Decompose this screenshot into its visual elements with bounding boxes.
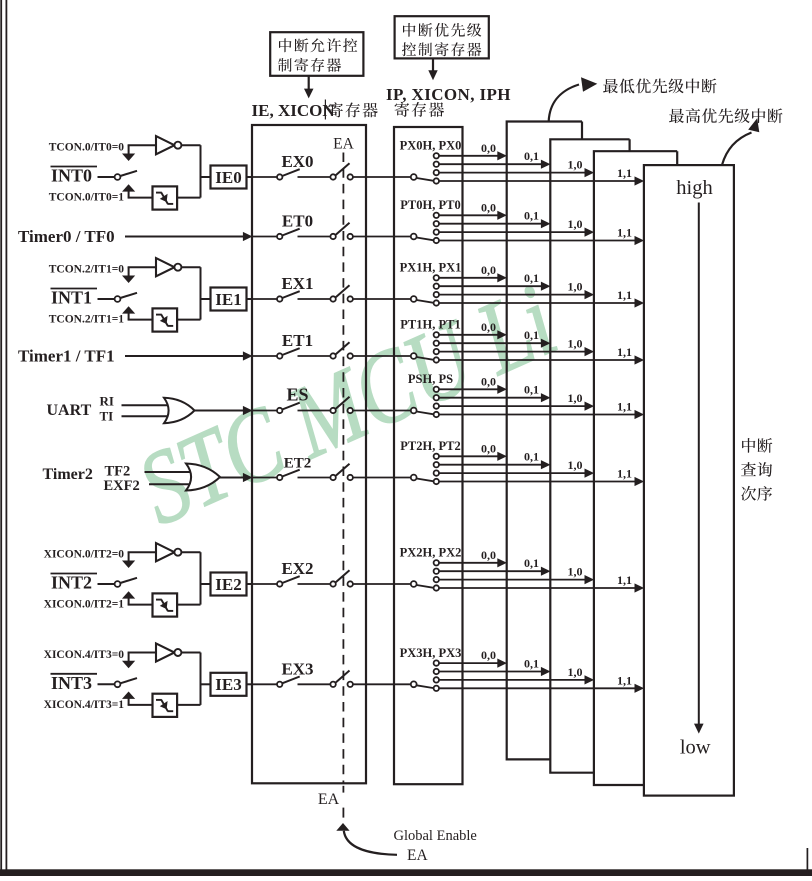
trigger select switch [115, 681, 121, 687]
svg-text:PT1H, PT1: PT1H, PT1 [400, 318, 460, 332]
wire priority 0,1 [439, 570, 542, 572]
svg-text:0,1: 0,1 [524, 271, 539, 285]
priority selector switch (PX3H, PX3) [411, 681, 417, 687]
priority selector switch (PT1H, PT1) [411, 353, 417, 359]
svg-text:EX2: EX2 [281, 559, 313, 578]
page bottom black bar [0, 869, 812, 876]
svg-text:0,1: 0,1 [524, 556, 539, 570]
svg-text:PSH, PS: PSH, PS [408, 372, 453, 386]
wire priority 1,0 [439, 579, 585, 581]
wire join [200, 145, 202, 197]
wire priority 0,0 [439, 455, 498, 457]
edge-trigger arrow [122, 184, 135, 191]
wire [247, 176, 253, 178]
wire to priority selector [353, 410, 411, 412]
wire [128, 266, 156, 268]
flag box IE0 [211, 166, 247, 189]
priority box 1,0 [594, 151, 677, 785]
edge-trigger arrow [122, 306, 135, 313]
register box: interrupt enable control register [270, 32, 363, 76]
wire priority 0,0 [439, 562, 498, 564]
wire priority 0,0 [439, 214, 498, 216]
svg-text:0,1: 0,1 [524, 657, 539, 671]
svg-text:TCON.2/IT1=1: TCON.2/IT1=1 [49, 314, 124, 326]
page border right bottom tick [806, 848, 808, 876]
page border left double line [0, 0, 2, 876]
wire [247, 683, 253, 685]
wire [220, 477, 243, 479]
svg-text:PX2H, PX2: PX2H, PX2 [400, 546, 462, 560]
wire [181, 652, 200, 654]
level-trigger arrow [122, 561, 135, 569]
wire [177, 319, 200, 321]
wire priority 1,1 [439, 359, 635, 361]
svg-text:1,0: 1,0 [568, 280, 583, 294]
svg-text:0,0: 0,0 [481, 320, 496, 334]
svg-text:high: high [676, 177, 712, 199]
wire to priority selector [353, 355, 411, 357]
svg-text:1,0: 1,0 [568, 665, 583, 679]
wire priority 1,1 [439, 302, 635, 304]
wire to priority selector [353, 477, 411, 479]
svg-text:1,1: 1,1 [617, 467, 632, 481]
wire [247, 583, 253, 585]
priority box 1,1 interrupt polling order [644, 165, 734, 796]
or-gate UART [164, 398, 195, 423]
switch EA (row EX3) [330, 682, 335, 687]
svg-text:0,0: 0,0 [481, 648, 496, 662]
arrow into enable box [243, 351, 253, 360]
svg-text:XICON.4/IT3=1: XICON.4/IT3=1 [44, 699, 125, 711]
wire priority 0,0 [439, 662, 498, 664]
wire priority 0,1 [439, 464, 542, 466]
priority selector switch (PT2H, PT2) [411, 475, 417, 481]
edge-trigger arrow [122, 692, 135, 699]
flag box IE2 [211, 573, 247, 596]
svg-text:EA: EA [407, 847, 428, 864]
inverter (TCON.0/IT0=0 path) [156, 136, 175, 154]
wire [177, 604, 200, 606]
wire [128, 604, 153, 606]
global enable arrow [336, 823, 349, 831]
edge detector (XICON.4/IT3=1 path) [153, 694, 178, 717]
edge detector (TCON.2/IT1=1 path) [153, 308, 178, 331]
svg-text:INT1: INT1 [51, 288, 92, 308]
wire EXF2 [149, 483, 191, 485]
switch EA (row ET0) [330, 234, 335, 239]
wire priority 0,0 [439, 155, 498, 157]
wire to priority selector [353, 176, 411, 178]
wire TF2 [145, 471, 192, 473]
wire to priority selector [353, 583, 411, 585]
svg-text:1,1: 1,1 [617, 345, 632, 359]
wire priority 0,0 [439, 277, 498, 279]
svg-text:TCON.2/IT1=0: TCON.2/IT1=0 [49, 264, 124, 276]
wire priority 1,0 [439, 351, 585, 353]
svg-text:ET2: ET2 [284, 456, 312, 472]
wire [181, 266, 200, 268]
svg-text:PX3H, PX3: PX3H, PX3 [400, 646, 462, 660]
wire [181, 144, 200, 146]
wire [98, 298, 116, 300]
svg-text:1,1: 1,1 [617, 673, 632, 687]
wire priority 1,1 [439, 687, 635, 689]
trigger select switch [115, 174, 121, 180]
IE,XICON enable switch box [252, 125, 366, 783]
svg-text:EA: EA [333, 136, 354, 153]
level-trigger arrow [122, 276, 135, 284]
edge-trigger arrow [122, 591, 135, 598]
wire join [200, 653, 202, 705]
svg-text:RI: RI [100, 394, 114, 409]
wire join [200, 552, 202, 604]
wire [128, 652, 156, 654]
svg-text:IE0: IE0 [215, 168, 241, 187]
svg-text:1,0: 1,0 [568, 565, 583, 579]
wire priority 1,1 [439, 414, 635, 416]
wire [128, 144, 156, 146]
priority selector switch (PSH, PS) [411, 408, 417, 414]
inverter (XICON.0/IT2=0 path) [156, 543, 175, 561]
arrow from priority register box [432, 58, 434, 70]
trigger select switch [115, 581, 121, 587]
svg-text:Global Enable: Global Enable [394, 828, 477, 844]
arrow into enable box [243, 473, 253, 482]
or-gate Timer2 [186, 464, 220, 491]
svg-text:1,0: 1,0 [568, 337, 583, 351]
svg-text:XICON.4/IT3=0: XICON.4/IT3=0 [44, 649, 125, 661]
label highest priority interrupt [669, 109, 684, 124]
priority selector switch (PX2H, PX2) [411, 581, 417, 587]
label lowest priority interrupt [603, 79, 618, 94]
polling order arrow [698, 203, 700, 725]
svg-text:IE, XICON: IE, XICON [252, 101, 336, 120]
wire priority 1,0 [439, 172, 585, 174]
svg-text:IE2: IE2 [215, 575, 241, 594]
wire [181, 551, 200, 553]
edge detector (TCON.0/IT0=1 path) [153, 186, 178, 209]
svg-text:ES: ES [286, 385, 308, 405]
svg-text:0,0: 0,0 [481, 200, 496, 214]
flag box IE1 [211, 288, 247, 311]
wire priority 0,1 [439, 342, 542, 344]
wire [128, 704, 153, 706]
svg-text:0,0: 0,0 [481, 141, 496, 155]
svg-text:0,0: 0,0 [481, 441, 496, 455]
svg-text:IE1: IE1 [215, 290, 241, 309]
inverter (XICON.4/IT3=0 path) [156, 643, 175, 661]
wire priority 1,0 [439, 294, 585, 296]
svg-text:1,0: 1,0 [568, 458, 583, 472]
svg-text:PT0H, PT0: PT0H, PT0 [400, 198, 460, 212]
svg-text:EXF2: EXF2 [104, 478, 140, 494]
flag box IE3 [211, 673, 247, 696]
wire [128, 197, 153, 199]
stray scan mark [324, 100, 326, 120]
watermark STC MCU Li [123, 263, 572, 547]
inverter (TCON.2/IT1=0 path) [156, 258, 175, 276]
svg-text:PX1H, PX1: PX1H, PX1 [400, 261, 462, 275]
svg-text:Timer2: Timer2 [43, 466, 93, 483]
svg-text:Timer1 / TF1: Timer1 / TF1 [18, 347, 115, 366]
svg-text:INT2: INT2 [51, 573, 92, 593]
priority box 0,1 [550, 139, 629, 772]
svg-text:1,1: 1,1 [617, 400, 632, 414]
switch EA (row ES) [330, 408, 335, 413]
svg-text:1,1: 1,1 [617, 226, 632, 240]
svg-text:0,1: 0,1 [524, 450, 539, 464]
svg-text:0,0: 0,0 [481, 548, 496, 562]
wire [177, 704, 200, 706]
svg-text:PX0H, PX0: PX0H, PX0 [400, 139, 462, 153]
wire priority 1,0 [439, 679, 585, 681]
wire priority 1,1 [439, 481, 635, 483]
wire [125, 236, 243, 238]
wire [247, 298, 253, 300]
wire to priority selector [353, 236, 411, 238]
svg-text:EX0: EX0 [281, 152, 313, 171]
switch EA (row ET2) [330, 475, 335, 480]
svg-text:1,0: 1,0 [568, 158, 583, 172]
svg-text:EX1: EX1 [281, 274, 313, 293]
wire priority 0,1 [439, 397, 542, 399]
wire join [200, 267, 202, 319]
wire priority 0,1 [439, 163, 542, 165]
IP register box [394, 127, 463, 784]
wire priority 0,1 [439, 285, 542, 287]
svg-text:1,1: 1,1 [617, 573, 632, 587]
svg-text:XICON.0/IT2=1: XICON.0/IT2=1 [44, 599, 125, 611]
wire priority 1,1 [439, 240, 635, 242]
wire RI [122, 404, 170, 406]
svg-text:INT3: INT3 [51, 673, 92, 693]
wire priority 0,1 [439, 671, 542, 673]
svg-text:IE3: IE3 [215, 675, 241, 694]
wire [128, 551, 156, 553]
svg-text:Timer0 / TF0: Timer0 / TF0 [18, 227, 115, 246]
EA global enable dashed line [342, 153, 344, 784]
svg-text:low: low [680, 737, 711, 759]
svg-text:UART: UART [47, 402, 92, 419]
wire priority 1,0 [439, 231, 585, 233]
arrow into enable box [243, 232, 253, 241]
wire [98, 583, 116, 585]
wire priority 1,0 [439, 405, 585, 407]
switch EA (row EX0) [330, 174, 335, 179]
svg-text:EA: EA [318, 791, 340, 808]
switch EA (row EX2) [330, 581, 335, 586]
svg-text:TCON.0/IT0=0: TCON.0/IT0=0 [49, 142, 124, 154]
wire [177, 197, 200, 199]
svg-text:0,1: 0,1 [524, 149, 539, 163]
svg-text:1,0: 1,0 [568, 391, 583, 405]
svg-text:TI: TI [100, 409, 114, 424]
svg-text:0,1: 0,1 [524, 383, 539, 397]
svg-text:INT0: INT0 [51, 166, 92, 186]
svg-text:PT2H, PT2: PT2H, PT2 [400, 439, 460, 453]
svg-text:ET0: ET0 [282, 212, 313, 231]
level-trigger arrow [122, 154, 135, 162]
register box: interrupt priority control register [395, 16, 489, 58]
svg-text:XICON.0/IT2=0: XICON.0/IT2=0 [44, 549, 125, 561]
svg-text:0,0: 0,0 [481, 374, 496, 388]
switch EA (row EX1) [330, 296, 335, 301]
priority selector switch (PX1H, PX1) [411, 296, 417, 302]
svg-text:TCON.0/IT0=1: TCON.0/IT0=1 [49, 192, 124, 204]
wire priority 1,0 [439, 472, 585, 474]
priority box 0,0 [507, 122, 582, 760]
svg-text:1,1: 1,1 [617, 288, 632, 302]
wire to priority selector [353, 298, 411, 300]
wire priority 0,0 [439, 388, 498, 390]
svg-text:1,1: 1,1 [617, 166, 632, 180]
wire [128, 319, 153, 321]
wire to priority selector [353, 683, 411, 685]
level-trigger arrow [122, 661, 135, 669]
svg-text:0,1: 0,1 [524, 328, 539, 342]
wire [98, 683, 116, 685]
edge detector (XICON.0/IT2=1 path) [153, 593, 178, 616]
arrow into enable box [243, 406, 253, 415]
wire priority 0,0 [439, 334, 498, 336]
svg-text:0,1: 0,1 [524, 209, 539, 223]
label interrupt polling order (vertical) [742, 438, 755, 453]
svg-text:IP, XICON, IPH: IP, XICON, IPH [386, 85, 511, 104]
wire [195, 410, 244, 412]
arrow to highest priority [722, 133, 752, 166]
wire [98, 176, 116, 178]
svg-text:0,0: 0,0 [481, 263, 496, 277]
trigger select switch [115, 296, 121, 302]
arrow from enable register box [308, 76, 310, 89]
svg-text:ET1: ET1 [282, 331, 313, 350]
wire [125, 355, 243, 357]
wire priority 1,1 [439, 180, 635, 182]
switch EA (row ET1) [330, 353, 335, 358]
wire TI [122, 415, 169, 417]
priority selector switch (PT0H, PT0) [411, 234, 417, 240]
svg-text:1,0: 1,0 [568, 217, 583, 231]
priority selector switch (PX0H, PX0) [411, 174, 417, 180]
svg-text:EX3: EX3 [281, 659, 313, 678]
arrow to lowest priority [549, 85, 579, 122]
wire priority 0,1 [439, 223, 542, 225]
wire priority 1,1 [439, 587, 635, 589]
